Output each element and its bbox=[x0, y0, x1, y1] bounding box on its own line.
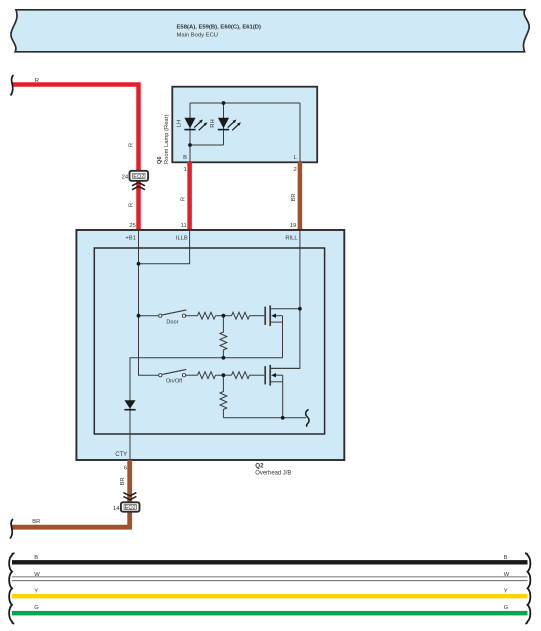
svg-text:R: R bbox=[35, 78, 39, 84]
wire: brown RILL bbox=[298, 162, 303, 230]
svg-text:14: 14 bbox=[113, 506, 120, 512]
svg-text:LH: LH bbox=[177, 120, 183, 127]
svg-text:G: G bbox=[34, 605, 39, 611]
torn end bottom left bbox=[10, 519, 13, 539]
wire: red ILLB bbox=[187, 162, 192, 230]
bus from FET1 source to diode branch bbox=[130, 316, 283, 460]
room lamp Q6 box bbox=[172, 87, 317, 163]
wire: brown CTY out bbox=[12, 460, 130, 527]
svg-text:E58(A), E59(B), E60(C), E61(D): E58(A), E59(B), E60(C), E61(D) bbox=[177, 25, 262, 31]
LED RH bbox=[210, 118, 241, 131]
resistor R-e bbox=[232, 372, 250, 379]
Main Body ECU banner bbox=[11, 10, 529, 52]
wire Q6 right to pin L bbox=[299, 103, 301, 162]
bus B black bbox=[12, 555, 528, 565]
junction Q6 top bbox=[222, 101, 226, 105]
svg-text:EQ2: EQ2 bbox=[125, 505, 136, 511]
bus2 bbox=[223, 417, 306, 419]
resistor R-a bbox=[198, 312, 216, 319]
junction chevrons up bbox=[132, 183, 145, 190]
svg-text:ILLB: ILLB bbox=[176, 235, 188, 241]
wire FET2 source to ground bus bbox=[282, 375, 284, 418]
svg-text:19: 19 bbox=[290, 223, 297, 229]
svg-text:R: R bbox=[129, 203, 135, 207]
on/off row bbox=[186, 374, 198, 376]
svg-text:24: 24 bbox=[122, 175, 129, 181]
wire LED RH branch bbox=[223, 103, 225, 145]
svg-text:2: 2 bbox=[294, 167, 297, 173]
wire RILL down to FET drains bbox=[271, 230, 300, 368]
overhead J/B Q2 outer box bbox=[76, 230, 344, 460]
wire door row bbox=[139, 315, 159, 317]
diode D1 bbox=[124, 400, 135, 409]
svg-text:Q6: Q6 bbox=[157, 157, 163, 164]
svg-text:11: 11 bbox=[181, 223, 187, 229]
junction pull-down 1 bbox=[222, 356, 226, 360]
svg-text:BR: BR bbox=[32, 519, 40, 525]
resistor R-d bbox=[198, 372, 216, 379]
switch Door bbox=[159, 310, 187, 325]
svg-text:B: B bbox=[183, 155, 187, 161]
break squiggle on bus2 bbox=[306, 409, 309, 426]
inner box bbox=[94, 248, 324, 434]
svg-text:BR: BR bbox=[120, 477, 126, 485]
resistor R-f vertical bbox=[220, 375, 227, 418]
svg-text:Y: Y bbox=[34, 588, 38, 594]
svg-text:25: 25 bbox=[129, 223, 136, 229]
wire +B1 down to On/Off bbox=[139, 230, 159, 375]
svg-text:CTY: CTY bbox=[115, 452, 127, 458]
svg-text:Door: Door bbox=[166, 319, 178, 325]
svg-text:R: R bbox=[129, 143, 135, 147]
svg-text:Main Body ECU: Main Body ECU bbox=[177, 32, 219, 38]
junction +B1/ILLB bbox=[137, 262, 141, 266]
LED LH bbox=[177, 118, 208, 131]
svg-text:Q2: Q2 bbox=[255, 463, 264, 470]
bus W white bbox=[12, 572, 528, 581]
wire LED LH branch to pin B bbox=[189, 103, 191, 162]
wire LED cathode tie bbox=[190, 144, 224, 146]
junction Q6 cathode tie bbox=[188, 143, 192, 147]
svg-text:Y: Y bbox=[504, 588, 508, 594]
junction +B1/Door bbox=[137, 314, 141, 318]
svg-text:6: 6 bbox=[124, 465, 128, 471]
svg-text:Room Lamp (Rear): Room Lamp (Rear) bbox=[164, 114, 170, 164]
junction Door row divider bbox=[222, 314, 226, 318]
internal wiring bbox=[130, 230, 306, 460]
resistor R-b bbox=[232, 312, 250, 319]
svg-text:On/Off: On/Off bbox=[166, 379, 183, 385]
wire ILLB down and left bbox=[139, 230, 190, 264]
torn edge left of buses bbox=[9, 553, 14, 623]
junction RILL/FET1 drain bbox=[298, 307, 302, 311]
svg-text:1: 1 bbox=[184, 167, 187, 173]
resistor R-c vertical bbox=[220, 316, 227, 358]
junction chevrons down bbox=[123, 493, 136, 500]
junction FET2 source bus bbox=[281, 416, 285, 420]
svg-text:RILL: RILL bbox=[285, 235, 298, 241]
bus Y yellow bbox=[12, 588, 528, 598]
wire Q6 top feed bbox=[190, 102, 300, 104]
svg-text:Overhead J/B: Overhead J/B bbox=[255, 471, 291, 477]
switch On/Off bbox=[159, 369, 187, 384]
transistor FET2 bbox=[265, 365, 300, 386]
wire: red feed from left bbox=[12, 85, 139, 231]
svg-text:R: R bbox=[181, 197, 187, 201]
svg-text:BR: BR bbox=[291, 193, 297, 201]
junction On/Off row divider bbox=[222, 373, 226, 377]
svg-text:RH: RH bbox=[210, 119, 216, 127]
connector E62 (24, EQ2) bbox=[122, 171, 148, 181]
svg-text:+B1: +B1 bbox=[125, 235, 135, 241]
torn edge right of buses bbox=[525, 553, 530, 623]
svg-text:G: G bbox=[504, 605, 509, 611]
connector E62 (14, EQ2) bbox=[113, 502, 139, 512]
torn end left bbox=[11, 75, 14, 96]
transistor FET1 bbox=[265, 305, 300, 326]
svg-text:EQ2: EQ2 bbox=[133, 174, 144, 180]
bus G green bbox=[12, 605, 528, 615]
